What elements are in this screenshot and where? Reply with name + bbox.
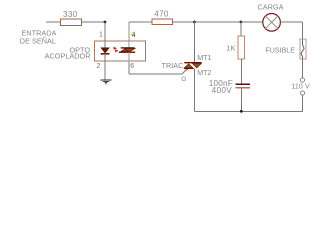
junction dot 1K node: [240, 21, 243, 24]
svg-text:4: 4: [131, 31, 135, 38]
wire pin2 to ground: [104, 62, 106, 80]
wire pin6 to gate: [129, 62, 185, 74]
svg-text:TRIAC: TRIAC: [162, 61, 184, 70]
wire fuse drop: [302, 22, 304, 39]
junction dot at 330/pin1: [104, 21, 107, 24]
label MT2: [197, 69, 211, 77]
pin label 1: [99, 32, 103, 39]
svg-text:1K: 1K: [226, 44, 235, 53]
svg-text:CARGA: CARGA: [258, 3, 284, 12]
svg-text:MT1: MT1: [197, 54, 211, 62]
wire pin4 vertical to top: [128, 22, 130, 41]
value label 1K: [226, 44, 235, 53]
label CARGA: [258, 3, 284, 12]
light arrows: [114, 47, 119, 52]
label MT1: [197, 54, 211, 62]
wire 330 to opto pin1: [82, 21, 106, 23]
wire MT1 node to 1K node: [195, 21, 242, 23]
pin label 4 (highlighted yellow): [131, 31, 136, 39]
svg-text:DE SEÑAL: DE SEÑAL: [20, 37, 56, 46]
pin label 6: [130, 63, 134, 70]
junction dot capacitor/rail: [240, 110, 243, 113]
lamp CARGA: [263, 13, 281, 31]
source terminal bottom: [300, 91, 304, 95]
value label 100nF 400V: [209, 79, 233, 95]
triac: [184, 63, 202, 71]
value label 330: [63, 10, 78, 19]
wire triac MT1 vertical: [194, 22, 196, 62]
svg-text:2: 2: [97, 63, 101, 70]
wire 1K node to lamp: [241, 21, 263, 23]
LED inside optocoupler: [101, 48, 110, 62]
fuse FUSIBLE: [300, 39, 306, 59]
wire triac MT2 to bottom rail: [194, 68, 196, 111]
wire 1K drop: [240, 22, 242, 36]
svg-text:330: 330: [63, 10, 78, 19]
junction dot MT1 node: [193, 21, 196, 24]
source terminal top: [300, 78, 304, 82]
label ENTRADA DE SEÑAL: [20, 29, 57, 46]
wire source to bottom rail: [302, 95, 304, 111]
wire input segment: [46, 21, 61, 23]
value label 470: [154, 10, 169, 19]
wire lamp to fuse corner: [280, 21, 302, 23]
wire pin4 corner to 470: [129, 21, 152, 23]
photo-diac inside optocoupler: [119, 41, 135, 62]
wire pin1 vertical: [104, 22, 106, 48]
wire bottom rail: [195, 110, 303, 112]
resistor 1K: [238, 36, 245, 59]
wire capacitor to bottom rail: [240, 89, 242, 112]
label OPTO ACOPLADOR: [45, 46, 91, 61]
label FUSIBLE: [265, 47, 295, 55]
capacitor 100nF: [236, 84, 251, 87]
label G: [181, 76, 186, 83]
svg-text:MT2: MT2: [197, 69, 211, 77]
optocoupler box: [95, 41, 146, 61]
svg-text:G: G: [181, 76, 186, 83]
ground: [101, 80, 112, 85]
pin label 2: [97, 63, 101, 70]
svg-text:1: 1: [99, 32, 103, 39]
svg-text:110 V: 110 V: [291, 82, 310, 91]
svg-text:ACOPLADOR: ACOPLADOR: [45, 52, 91, 61]
svg-text:6: 6: [130, 63, 134, 70]
resistor 330: [61, 19, 82, 26]
wire fuse to source: [302, 59, 304, 78]
label 110 V: [291, 82, 310, 91]
svg-text:FUSIBLE: FUSIBLE: [265, 47, 295, 55]
wire 1K to capacitor: [240, 59, 242, 84]
wire 470 to MT1 node: [173, 21, 195, 23]
svg-text:400V: 400V: [212, 86, 233, 95]
resistor 470: [152, 19, 173, 25]
label TRIAC: [162, 61, 184, 70]
svg-text:470: 470: [154, 10, 169, 19]
